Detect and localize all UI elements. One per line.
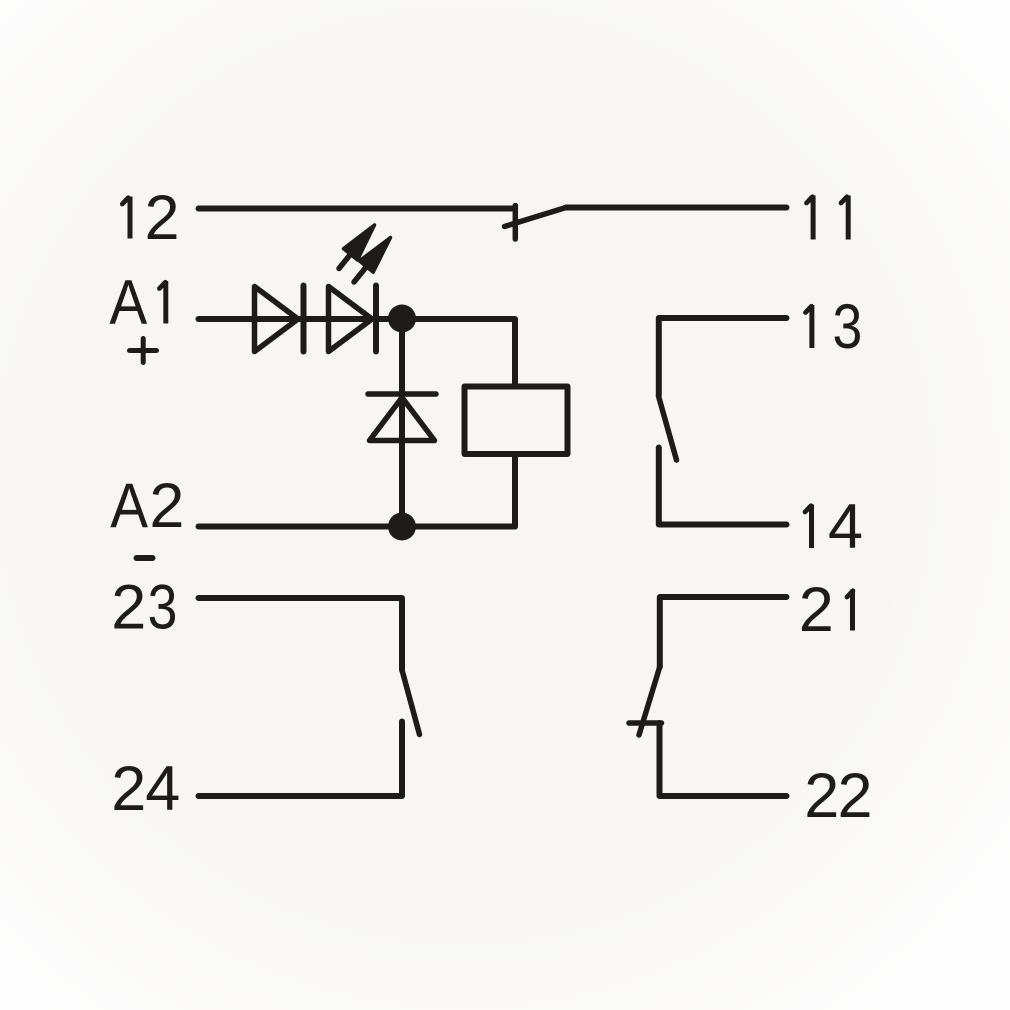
LED emission arrow 2 <box>354 238 391 283</box>
wire terminal 22 <box>660 723 787 796</box>
wire terminal 13 <box>659 318 787 396</box>
wire terminal 11 <box>566 205 787 211</box>
svg-text:3: 3 <box>833 292 863 362</box>
svg-text:2: 2 <box>145 183 180 253</box>
contact 11-12 blade (NC break contact) <box>505 208 567 227</box>
terminal label A2 <box>110 470 184 541</box>
contact 23-24 blade (NO make contact) <box>402 670 420 735</box>
svg-text:A: A <box>110 470 148 540</box>
freewheeling diode V3 <box>368 394 436 441</box>
terminal label 23 <box>111 572 177 642</box>
terminal label 13 <box>806 292 863 362</box>
diode V1 <box>255 286 304 352</box>
svg-text:2: 2 <box>149 471 184 541</box>
wire coil bottom to A2 <box>512 455 518 527</box>
terminal label 21 <box>799 575 853 645</box>
wire terminal A2 <box>199 524 516 530</box>
svg-text:3: 3 <box>148 572 178 642</box>
svg-text:4: 4 <box>145 754 180 824</box>
contact 11-12 fixed tick <box>513 206 519 240</box>
terminal label 24 <box>111 754 180 824</box>
polarity plus sign <box>130 339 157 363</box>
terminal label A1 <box>109 267 165 337</box>
terminal label 11 <box>807 196 849 240</box>
wire terminal 21 <box>660 597 787 667</box>
node junction at A2 row <box>388 513 416 541</box>
node junction at A1 row <box>388 305 416 333</box>
svg-text:4: 4 <box>828 492 863 562</box>
contact 21-22 blade (NC break contact) <box>639 666 660 735</box>
terminal label 22 <box>804 761 872 831</box>
LED V2 <box>329 286 377 352</box>
polarity minus sign <box>137 555 153 561</box>
wire freewheeling diode branch <box>399 319 405 527</box>
svg-text:2: 2 <box>804 761 839 831</box>
wire terminal 14 <box>659 448 787 525</box>
svg-text:2: 2 <box>838 761 873 831</box>
wire terminal A1 <box>199 316 403 322</box>
contact 21-22 fixed tick <box>629 720 662 726</box>
svg-text:2: 2 <box>111 573 146 643</box>
relay coil K1 <box>465 387 568 455</box>
wire terminal 24 <box>199 722 403 797</box>
wire terminal 23 <box>199 598 403 670</box>
svg-text:2: 2 <box>799 575 834 645</box>
LED emission arrow 1 <box>339 225 375 269</box>
svg-text:2: 2 <box>111 754 146 824</box>
wire terminal 12 <box>199 206 514 212</box>
svg-text:A: A <box>109 267 147 337</box>
terminal label 12 <box>122 183 179 253</box>
wire node A1 to coil top <box>402 319 515 384</box>
contact 13-14 blade (NO make contact) <box>659 396 677 460</box>
terminal label 14 <box>805 492 863 562</box>
